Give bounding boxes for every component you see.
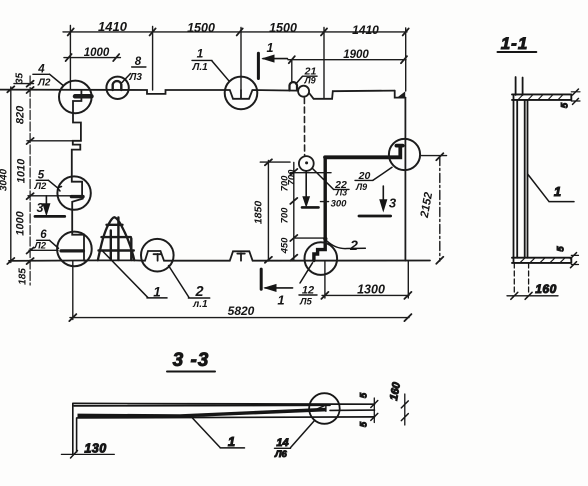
loop recess circle on top edge <box>298 86 309 97</box>
lifting loop 8 (top-left) <box>113 81 122 90</box>
slab sheet thick bar <box>78 408 326 418</box>
svg-text:1: 1 <box>277 293 284 308</box>
svg-text:1-1: 1-1 <box>501 34 529 53</box>
extension line x405.7 <box>405 28 407 91</box>
extension y250.3 <box>29 249 58 251</box>
hatched mound on bottom edge <box>98 217 135 260</box>
svg-text:3 -3: 3 -3 <box>173 350 210 371</box>
lifting loop 21 (top-middle) <box>290 82 298 90</box>
mid line right of circle <box>330 409 375 411</box>
leader circle to 2/l1 <box>169 266 190 298</box>
svg-text:300: 300 <box>331 199 348 210</box>
3040 ticks <box>7 86 14 264</box>
dim 160 vertical <box>404 394 406 425</box>
dim 5 bottom <box>571 255 578 264</box>
bottom flange hatch <box>520 258 565 263</box>
svg-text:8: 8 <box>135 56 142 68</box>
svg-text:Л9: Л9 <box>355 182 367 192</box>
detail circle 20/L9 <box>389 139 420 170</box>
leader mound to 1 <box>103 252 148 298</box>
leader 6/L2 <box>50 240 59 248</box>
svg-text:Л6: Л6 <box>274 449 288 460</box>
dim 160 line <box>507 295 558 297</box>
bottom edge <box>9 251 430 261</box>
svg-text:160: 160 <box>388 381 403 402</box>
bottom flange <box>512 258 571 263</box>
svg-text:1500: 1500 <box>269 21 297 35</box>
svg-text:820: 820 <box>15 105 27 124</box>
1300 ticks <box>321 292 411 299</box>
svg-text:1000: 1000 <box>15 210 27 235</box>
leader 12/L5 <box>300 263 313 283</box>
dashed legs below <box>514 263 528 295</box>
svg-text:2: 2 <box>349 237 358 253</box>
svg-text:1: 1 <box>197 47 204 61</box>
svg-text:1010: 1010 <box>16 158 28 183</box>
weld plate top-left corner <box>75 94 92 99</box>
svg-text:1410: 1410 <box>98 19 128 34</box>
2152 ticks <box>436 153 443 264</box>
loop wires <box>516 77 523 95</box>
extension y162 <box>260 161 290 163</box>
notch tick bottom notch 2 <box>237 253 245 260</box>
svg-text:185: 185 <box>18 268 29 285</box>
svg-text:5: 5 <box>560 102 571 108</box>
dim 5 top <box>571 92 580 101</box>
svg-text:1300: 1300 <box>357 283 385 297</box>
dim 1900 line <box>288 59 406 61</box>
dot at 450 tick <box>323 237 327 241</box>
dashed hidden line from loop 21 to hole <box>303 98 305 156</box>
svg-text:1: 1 <box>554 184 561 199</box>
svg-text:1900: 1900 <box>343 49 369 61</box>
notch tick in top notch <box>240 90 242 98</box>
leader 4/L2 <box>50 74 63 85</box>
leader 1/L1 top <box>212 61 229 81</box>
dim 2152 line (dash-dot) <box>439 157 441 262</box>
svg-text:3040: 3040 <box>0 168 10 191</box>
slab bottom line <box>78 417 375 418</box>
dim 5 top right <box>373 398 375 423</box>
row1 ticks <box>68 28 409 35</box>
extension 35 top <box>14 83 34 85</box>
section mark 1 top <box>258 53 287 78</box>
dim 1000 ticks <box>66 54 120 61</box>
leader 1 section3 <box>191 417 245 448</box>
extension to 2152 top <box>422 155 447 157</box>
leader 1 section <box>528 174 574 202</box>
dim 5820 line <box>70 317 409 319</box>
extension y140.8 <box>27 140 81 142</box>
extension line x241 <box>240 28 242 91</box>
left chain ticks <box>27 81 34 264</box>
notch tick bottom notch 1 <box>154 254 162 261</box>
1850 ticks <box>265 159 272 262</box>
section mark 3 right <box>359 186 391 216</box>
section mark 3 left <box>28 196 72 217</box>
svg-text:3: 3 <box>389 196 397 211</box>
top right corner step <box>395 91 406 98</box>
dim 1000 line <box>64 57 120 59</box>
extension x408.3 down <box>407 261 409 298</box>
dim 130 <box>61 453 114 455</box>
bar end hook <box>318 405 326 411</box>
weld plate bottom-left <box>61 249 84 252</box>
extension line x324 <box>323 28 325 99</box>
svg-text:5: 5 <box>359 421 370 427</box>
svg-text:2152: 2152 <box>419 191 436 220</box>
extension x324.9 down <box>324 261 326 298</box>
left edge lower part <box>72 199 84 261</box>
svg-text:5: 5 <box>359 392 370 398</box>
leader 5/L2 <box>48 180 61 191</box>
svg-text:Л2: Л2 <box>34 181 48 192</box>
tick crossing y201.6 <box>321 201 329 203</box>
detail circle 8/L3 <box>106 77 128 99</box>
leader 2 (mid) <box>327 241 365 249</box>
detail circle 5/L2 mid-left <box>57 176 90 209</box>
top edge right part <box>310 91 395 99</box>
weld plate mid-left <box>72 195 84 198</box>
overall 3040 dim line <box>10 87 12 263</box>
wall lines <box>514 94 528 262</box>
top edge of panel <box>0 90 298 99</box>
detail circle 4/L2 top-left corner <box>59 81 92 114</box>
detail circle 14/L6 <box>309 393 340 424</box>
svg-text:Л2: Л2 <box>33 241 47 252</box>
leader 14/L6 <box>291 421 315 448</box>
detail circle bottom notch <box>141 239 174 272</box>
svg-text:1000: 1000 <box>84 47 110 59</box>
leader 22/L3 <box>313 169 334 190</box>
top flange hatch <box>518 95 563 100</box>
svg-text:450: 450 <box>280 237 291 255</box>
right edge <box>404 98 406 261</box>
svg-text:5: 5 <box>556 246 567 252</box>
svg-text:1500: 1500 <box>187 21 215 35</box>
detail circle 12/L5 <box>305 242 338 275</box>
svg-text:5820: 5820 <box>228 304 255 318</box>
top flange <box>512 94 571 100</box>
svg-text:6: 6 <box>40 229 47 241</box>
5820 ticks <box>69 314 411 321</box>
svg-text:35: 35 <box>15 73 26 85</box>
detail circle 1/L1 top-middle <box>225 77 258 110</box>
svg-text:130: 130 <box>84 442 106 456</box>
thick opening edge horizontal <box>325 146 403 158</box>
thick opening edge vertical with z-jog <box>314 157 325 260</box>
leader 21/L9 <box>296 76 303 84</box>
svg-text:1410: 1410 <box>352 23 379 37</box>
left chain line x30 <box>29 76 31 285</box>
leader 20/L9 <box>373 167 392 180</box>
tick extension y238.1 <box>295 237 324 239</box>
svg-text:3: 3 <box>37 201 44 215</box>
detail circle 6/L2 bottom-left <box>57 232 92 267</box>
chain 1850 line <box>267 161 269 262</box>
svg-text:Л.1: Л.1 <box>192 62 209 73</box>
svg-text:1850: 1850 <box>253 201 265 225</box>
chain700 ticks <box>290 169 297 261</box>
svg-text:Л3: Л3 <box>335 188 347 198</box>
svg-text:1: 1 <box>228 434 235 449</box>
svg-text:160: 160 <box>535 282 557 296</box>
hole (washer) <box>299 156 314 171</box>
arrow from hole down <box>302 171 319 207</box>
section mark 1 bottom <box>261 269 292 291</box>
left edge profile with rebates <box>72 90 82 195</box>
svg-text:л.1: л.1 <box>192 299 208 310</box>
left end + leg <box>73 403 77 454</box>
extension line x70 <box>69 26 71 90</box>
svg-text:14: 14 <box>276 437 288 449</box>
top dim row 1 line <box>63 31 407 33</box>
svg-text:Л3: Л3 <box>129 72 143 83</box>
svg-text:700: 700 <box>287 169 298 186</box>
svg-text:700: 700 <box>280 207 291 224</box>
dim 1300 line <box>322 294 409 296</box>
svg-text:Л9: Л9 <box>304 76 316 86</box>
chain 700 line <box>293 163 295 260</box>
svg-text:1: 1 <box>267 41 274 55</box>
tick extension y172.7 <box>291 172 332 174</box>
svg-text:Л2: Л2 <box>37 78 51 89</box>
extension 1900 left <box>291 60 293 81</box>
dim 1900 ticks <box>289 56 407 63</box>
extension line x152 <box>152 27 154 91</box>
extension left edge down <box>72 261 74 320</box>
leader 8/L3 <box>122 74 131 83</box>
corner filled wedge <box>397 91 405 97</box>
svg-text:Л5: Л5 <box>299 297 313 308</box>
slab top lines <box>73 403 375 406</box>
